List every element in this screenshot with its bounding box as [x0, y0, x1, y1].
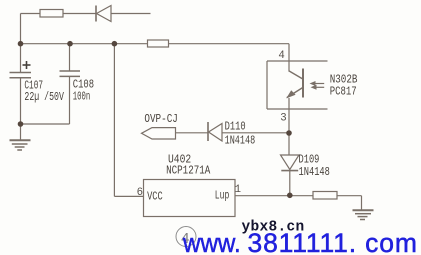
svg-text:3: 3	[280, 113, 286, 125]
wire bus down to opto pin4	[288, 44, 290, 71]
svg-text:PC817: PC817	[330, 85, 357, 98]
wire opto pin3 down	[288, 98, 290, 155]
plus sign C107	[23, 61, 31, 69]
light arrows	[310, 81, 325, 90]
ground right	[353, 210, 374, 219]
resistor R-bottom	[313, 192, 337, 200]
resistor R-bus	[148, 40, 169, 47]
wire VCC bus	[21, 43, 290, 45]
node bus-C107	[18, 41, 24, 47]
svg-text:100n: 100n	[73, 91, 91, 104]
svg-text:22µ /50V: 22µ /50V	[24, 91, 64, 104]
svg-text:1N4148: 1N4148	[225, 135, 256, 148]
chip U402 box	[144, 180, 236, 217]
wire top to resistor	[21, 13, 41, 15]
wire D110 to pin3 node	[222, 132, 289, 134]
svg-text:D110: D110	[225, 121, 246, 134]
node bus-pin6	[112, 41, 118, 47]
svg-text:1: 1	[235, 184, 241, 196]
diode D-top	[96, 6, 111, 22]
capacitor C107	[10, 73, 32, 125]
diode D109	[281, 155, 300, 196]
ground left	[10, 140, 31, 150]
watermark stamp circle	[176, 227, 196, 249]
svg-text:1N4148: 1N4148	[299, 166, 330, 179]
node cap-ground junction	[18, 121, 24, 127]
svg-text:4: 4	[278, 50, 284, 62]
wire cap bottoms	[21, 123, 70, 125]
wire resistor to ground	[337, 196, 362, 210]
node D109 bottom junction	[287, 193, 293, 199]
wire diode to right	[111, 13, 151, 15]
OVP-CJ flag	[142, 128, 176, 139]
node pin3-D110 junction	[286, 130, 292, 136]
resistor R-top	[40, 10, 63, 18]
opto phototransistor	[286, 69, 303, 99]
svg-text:6: 6	[137, 187, 143, 199]
capacitor C108	[60, 44, 81, 124]
wire bus down to U402 pin6	[114, 44, 143, 197]
opto coupler U-opto box	[267, 61, 328, 109]
svg-text:NCP1271A: NCP1271A	[166, 165, 210, 178]
wire flag to D110	[176, 132, 209, 134]
svg-text:Lup: Lup	[215, 190, 230, 203]
svg-text:D109: D109	[299, 153, 320, 166]
svg-text:OVP-CJ: OVP-CJ	[144, 113, 178, 126]
diode D110	[208, 122, 222, 141]
wire U402 pin1 rail	[235, 195, 313, 197]
wire to left ground	[20, 124, 22, 140]
wire top-left vertical	[20, 14, 22, 73]
svg-text:www. 3811111. com: www. 3811111. com	[182, 228, 417, 255]
node bus-C108	[67, 41, 73, 47]
wire resistor to diode	[63, 13, 96, 15]
svg-text:VCC: VCC	[147, 191, 163, 204]
